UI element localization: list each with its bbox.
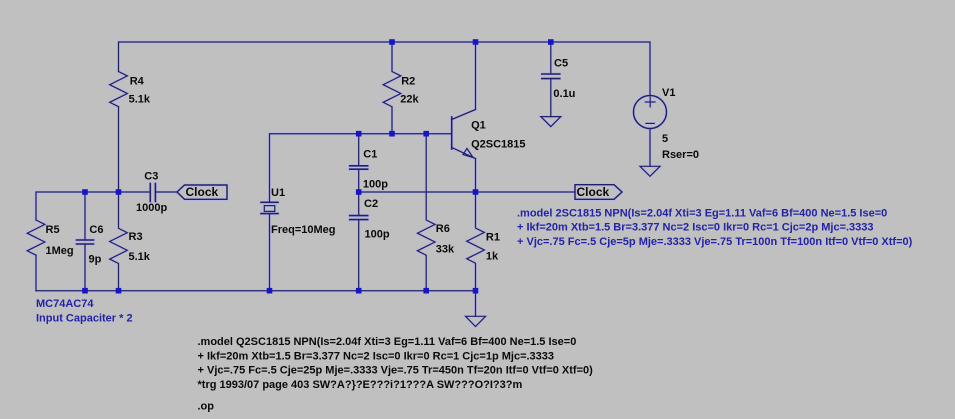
capacitor C5 <box>550 42 552 74</box>
wire mid-right row to output flag <box>359 191 575 193</box>
node junction R4-R3 <box>116 189 122 195</box>
node junction C6 bottom <box>82 288 88 294</box>
node junction C2 bottom <box>356 288 362 294</box>
svg-text:5: 5 <box>662 133 668 145</box>
node junction R6 bottom <box>423 288 429 294</box>
node junction U1 bottom <box>267 288 273 294</box>
svg-text:1Meg: 1Meg <box>46 245 74 257</box>
svg-text:Q1: Q1 <box>471 119 486 131</box>
svg-text:Input Capaciter * 2: Input Capaciter * 2 <box>36 313 133 325</box>
wire R5 bottom to ground rail <box>35 255 37 291</box>
svg-text:+ Ikf=20m Xtb=1.5 Br=3.377 Nc=: + Ikf=20m Xtb=1.5 Br=3.377 Nc=2 Isc=0 Ik… <box>198 350 555 362</box>
svg-text:R4: R4 <box>130 75 145 87</box>
wire R4 bottom to mid node <box>118 107 120 192</box>
node junction R2 top <box>389 39 395 45</box>
ground rail bottom <box>36 290 476 292</box>
node junction Q1 emitter <box>473 189 479 195</box>
svg-text:+ Ikf=20m Xtb=1.5 Br=3.377 Nc=: + Ikf=20m Xtb=1.5 Br=3.377 Nc=2 Isc=0 Ik… <box>517 222 874 234</box>
wire U1 column and base row <box>270 134 452 203</box>
node junction C1-C2 <box>356 189 362 195</box>
svg-text:Freq=10Meg: Freq=10Meg <box>271 224 336 236</box>
resistor R2 <box>383 42 401 134</box>
capacitor C3 <box>149 184 151 202</box>
svg-text:1000p: 1000p <box>136 202 167 214</box>
node junction C5 top <box>548 39 554 45</box>
svg-text:C2: C2 <box>364 198 378 210</box>
resistor R5 <box>27 220 45 255</box>
flag Clock output port <box>575 185 622 200</box>
capacitor C2 <box>358 192 360 216</box>
svg-text:5.1k: 5.1k <box>129 94 151 106</box>
svg-text:+ Vjc=.75 Fc=.5 Cje=25p Mje=.3: + Vjc=.75 Fc=.5 Cje=25p Mje=.3333 Vje=.7… <box>198 365 594 377</box>
svg-text:.model Q2SC1815 NPN(Is=2.04f X: .model Q2SC1815 NPN(Is=2.04f Xti=3 Eg=1.… <box>198 336 577 348</box>
svg-text:R1: R1 <box>486 231 500 243</box>
svg-text:C5: C5 <box>554 58 568 70</box>
wire top supply rail <box>119 42 651 96</box>
svg-text:1k: 1k <box>486 251 499 263</box>
node junction C1 top <box>356 131 362 137</box>
resistor R4 <box>110 72 128 107</box>
svg-text:V1: V1 <box>662 87 675 99</box>
svg-text:C1: C1 <box>363 148 377 160</box>
svg-text:22k: 22k <box>400 94 419 106</box>
svg-text:R3: R3 <box>129 231 143 243</box>
resistor R6 <box>417 134 435 291</box>
svg-text:C6: C6 <box>89 224 103 236</box>
wire mid-left row <box>36 192 149 220</box>
wire C3 to clock flag <box>156 191 177 193</box>
transistor Q1 <box>451 117 453 149</box>
svg-text:Rser=0: Rser=0 <box>662 149 699 161</box>
node junction Q1 collector top <box>473 39 479 45</box>
oscillator U1 <box>261 201 278 203</box>
svg-text:0.1u: 0.1u <box>553 88 575 100</box>
svg-text:+ Vjc=.75 Fc=.5 Cje=5p Mje=.33: + Vjc=.75 Fc=.5 Cje=5p Mje=.3333 Vje=.75… <box>517 236 913 248</box>
ground symbol below V1 <box>640 166 660 176</box>
svg-text:Q2SC1815: Q2SC1815 <box>471 138 525 150</box>
node junction R2 bottom <box>389 131 395 137</box>
svg-text:R5: R5 <box>46 224 60 236</box>
svg-text:C3: C3 <box>144 171 158 183</box>
svg-text:9p: 9p <box>89 254 102 266</box>
svg-text:100p: 100p <box>365 228 390 240</box>
svg-text:*trg 1993/07 page 403 SW?A?}?E: *trg 1993/07 page 403 SW?A?}?E???i?1???A… <box>198 379 523 391</box>
capacitor C1 <box>358 134 360 166</box>
node junction R1 bottom <box>473 288 479 294</box>
node junction C6 top <box>82 189 88 195</box>
voltage source V1 <box>634 96 667 129</box>
svg-text:U1: U1 <box>271 187 285 199</box>
svg-text:.model 2SC1815 NPN(Is=2.04f Xt: .model 2SC1815 NPN(Is=2.04f Xti=3 Eg=1.1… <box>517 208 887 220</box>
flag Clock input port <box>177 185 227 199</box>
svg-text:Clock: Clock <box>186 185 219 199</box>
ground symbol below R1 <box>466 316 486 326</box>
svg-text:.op: .op <box>198 400 215 412</box>
svg-text:Clock: Clock <box>577 185 610 199</box>
svg-text:MC74AC74: MC74AC74 <box>36 298 94 310</box>
svg-text:5.1k: 5.1k <box>129 251 151 263</box>
svg-text:R6: R6 <box>436 223 450 235</box>
capacitor C6 <box>84 192 86 240</box>
svg-text:33k: 33k <box>436 243 455 255</box>
wire to ground below R1 <box>475 291 477 317</box>
node junction R3 bottom <box>116 288 122 294</box>
ground symbol below C5 <box>541 117 561 127</box>
resistor R1 <box>467 192 485 291</box>
svg-text:R2: R2 <box>401 75 415 87</box>
node junction R6 top <box>423 131 429 137</box>
svg-text:100p: 100p <box>363 179 388 191</box>
resistor R3 <box>110 192 128 291</box>
